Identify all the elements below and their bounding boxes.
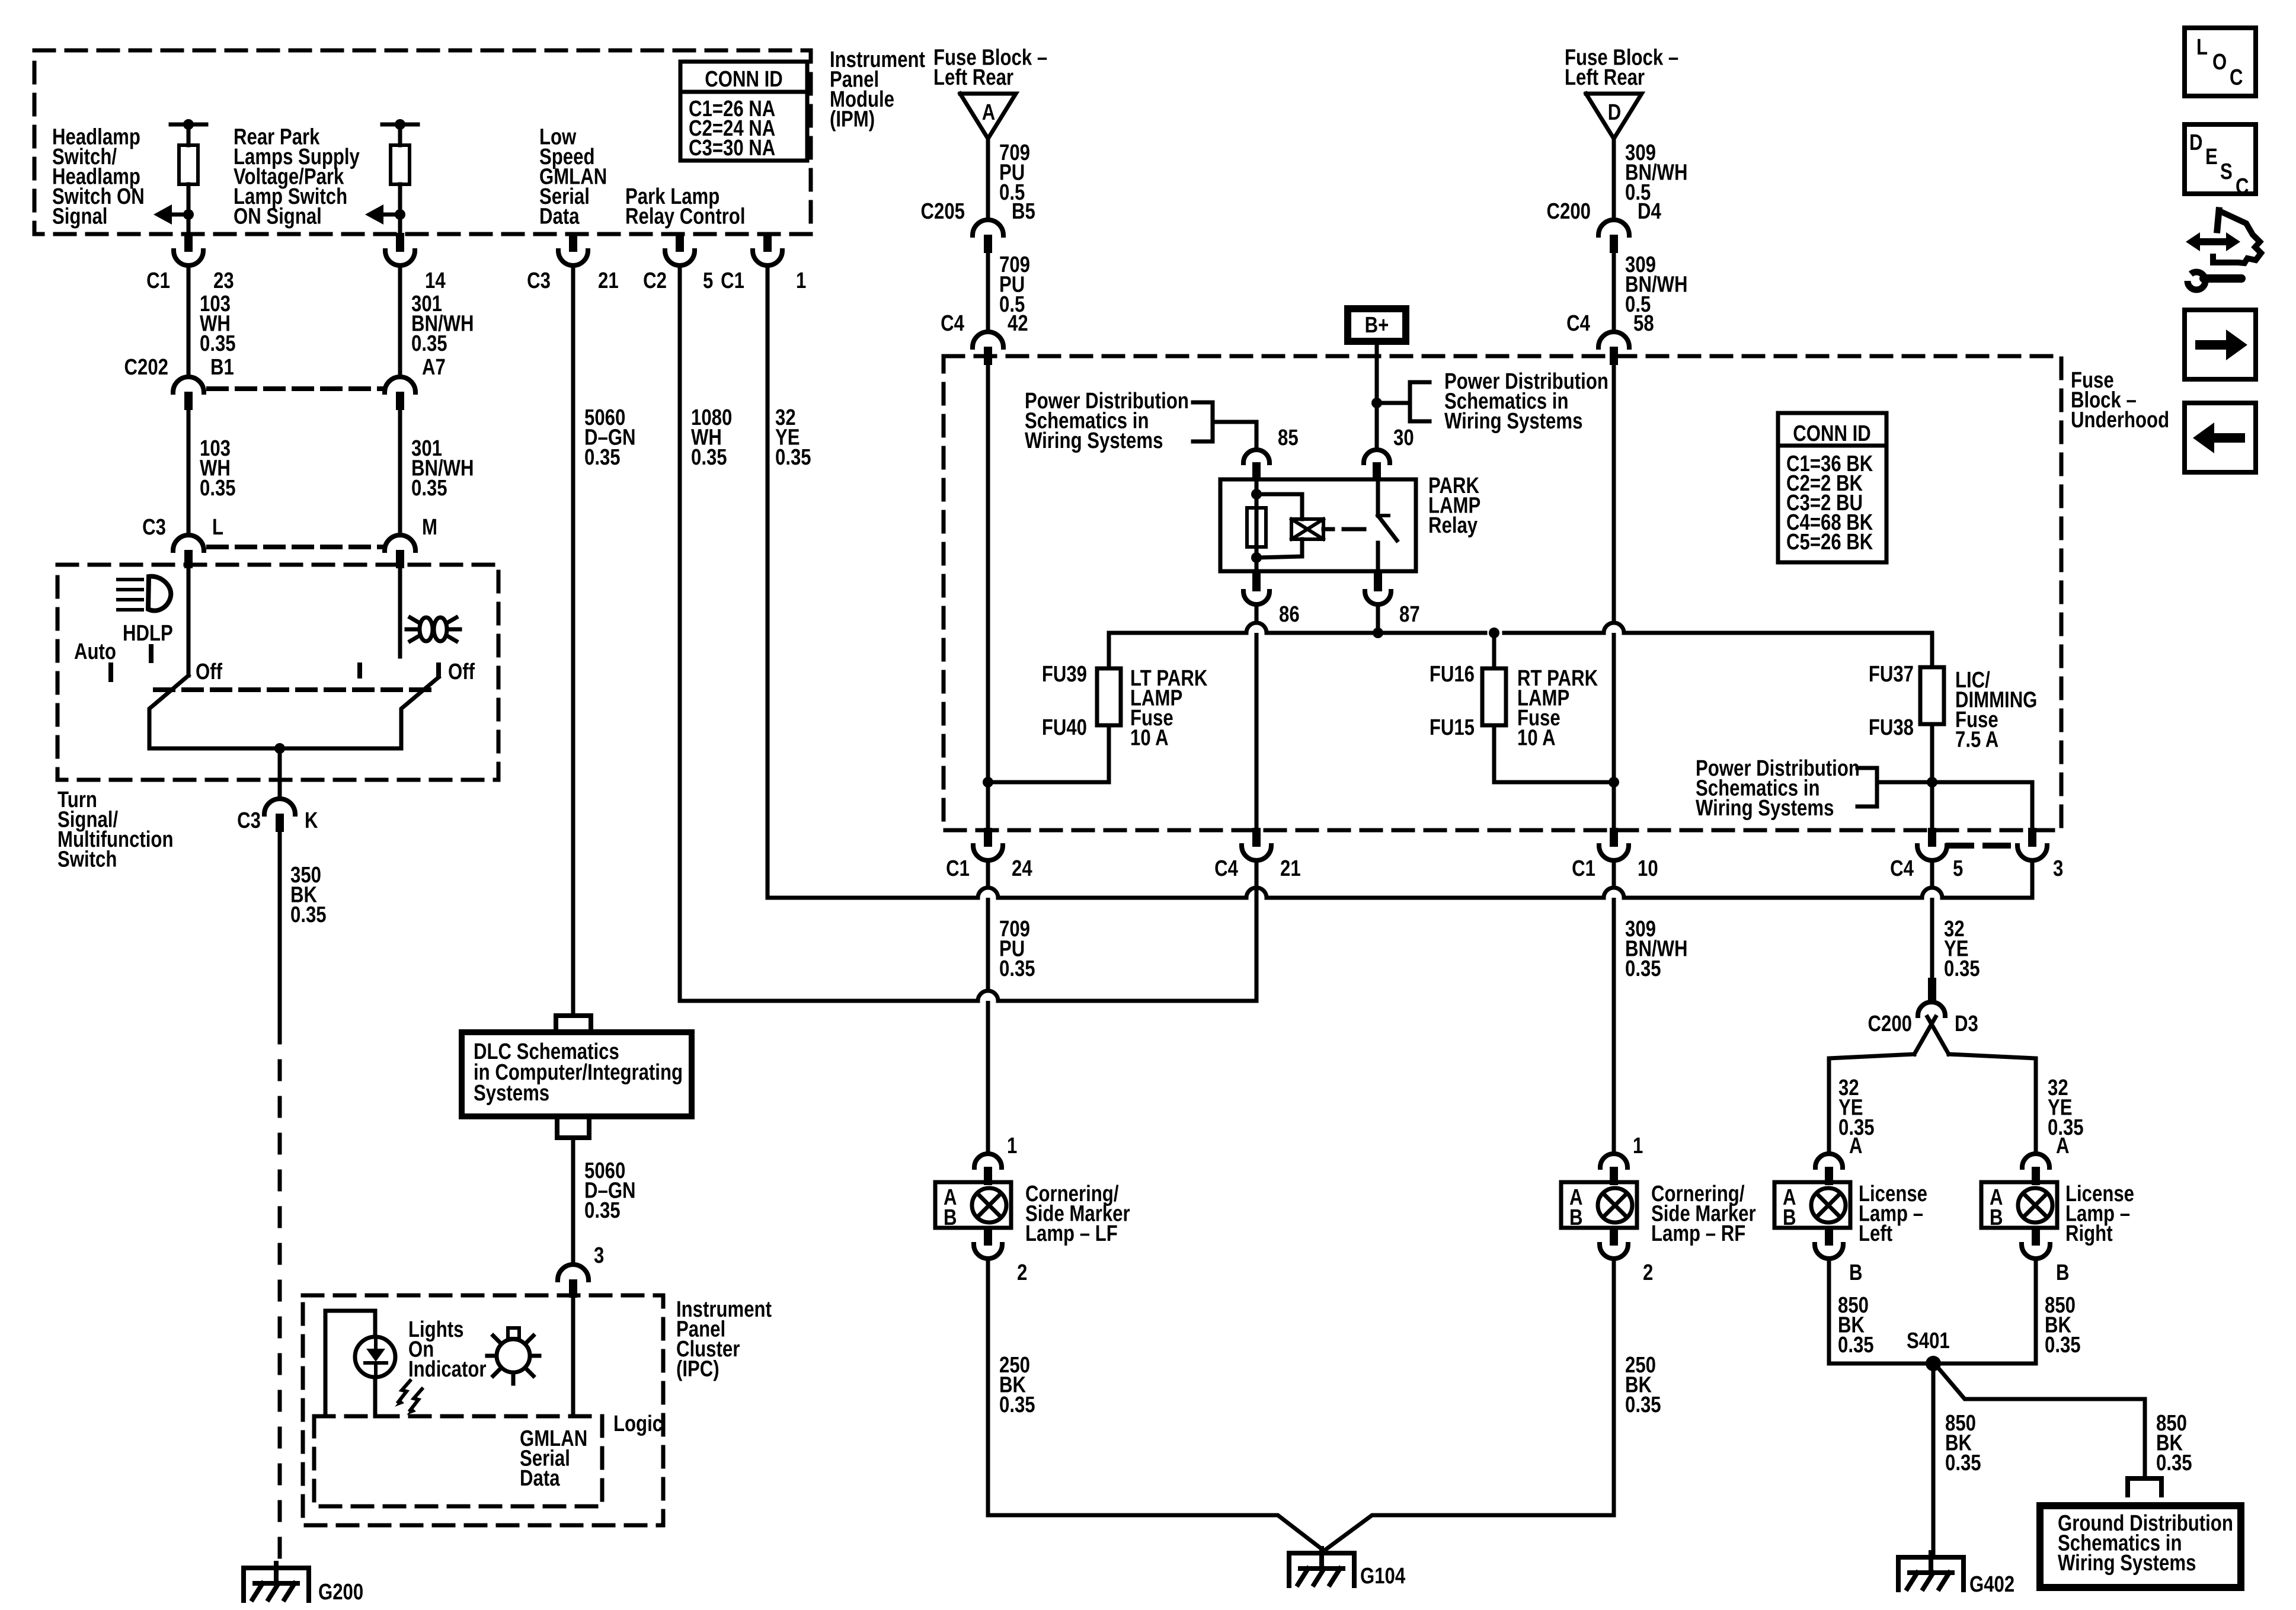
svg-text:Relay: Relay — [1428, 513, 1478, 538]
svg-text:85: 85 — [1278, 425, 1299, 450]
svg-text:Indicator: Indicator — [408, 1357, 487, 1382]
wire B+ to relay pin 30 — [1375, 341, 1379, 449]
svg-text:C3: C3 — [237, 808, 261, 833]
connector relay pin 85 — [1243, 450, 1269, 463]
wire into IPC — [571, 1298, 575, 1416]
node FU16 output junction — [1609, 777, 1619, 788]
svg-text:B1: B1 — [210, 355, 234, 380]
svg-text:C5=26 BK: C5=26 BK — [1786, 530, 1873, 555]
node FU37 output — [1927, 777, 1937, 788]
connector C1 pin 10 — [1610, 828, 1618, 847]
svg-text:2: 2 — [1017, 1260, 1027, 1285]
svg-text:0.35: 0.35 — [691, 445, 727, 470]
cornering side marker lamp RF — [1561, 1182, 1637, 1228]
wire 250 BK RF — [1612, 1259, 1616, 1515]
bracket power distribution right — [1408, 382, 1412, 421]
svg-text:0.35: 0.35 — [1838, 1333, 1874, 1358]
svg-text:A: A — [2056, 1134, 2070, 1158]
wire W2 into switch — [398, 568, 402, 657]
wire FU37 node to pin 3 — [1932, 782, 2032, 827]
icon indicator bulb — [497, 1339, 530, 1372]
Instrument Panel Cluster dashed box — [303, 1295, 663, 1525]
connector C1 pin 24 — [984, 828, 992, 847]
LED lights on indicator wiring — [325, 1311, 375, 1416]
svg-text:C4: C4 — [1566, 311, 1590, 336]
wire pin 87 to bus — [1376, 604, 1380, 633]
wire 709 PU 0.35 down — [986, 861, 990, 1151]
svg-text:0.35: 0.35 — [1945, 1451, 1981, 1475]
connector C1 pin 23 — [184, 233, 193, 252]
wire 5060 D-GN upper — [571, 266, 575, 1016]
icon park lamps — [420, 617, 433, 641]
power bus from relay 87 — [1109, 631, 1246, 635]
svg-text:21: 21 — [598, 268, 619, 293]
svg-text:D: D — [1608, 100, 1622, 125]
ground G104 — [1289, 1553, 1354, 1586]
wire W1 headlamp switch signal internal — [171, 123, 206, 127]
ground G200 — [244, 1568, 309, 1601]
connector RF lamp pin 2 — [1610, 1227, 1618, 1246]
node pin 87 bus junction — [1373, 628, 1383, 638]
arrow W2 signal out — [383, 213, 400, 217]
svg-text:D3: D3 — [1955, 1012, 1978, 1036]
node W2 arrow junction — [395, 209, 405, 220]
bracket power distribution lower — [1875, 768, 1879, 806]
wire 850 BK left — [1827, 1259, 1831, 1363]
IPM module dashed box — [34, 50, 811, 234]
svg-text:B5: B5 — [1012, 199, 1035, 224]
svg-text:FU37: FU37 — [1869, 662, 1914, 687]
connector link dashes C202 — [209, 386, 385, 391]
arrow W1 signal out — [172, 213, 188, 217]
svg-text:1: 1 — [1633, 1134, 1643, 1158]
Fuse Block Underhood dashed box — [944, 356, 2061, 830]
svg-text:C3=30 NA: C3=30 NA — [689, 136, 775, 161]
svg-text:HDLP: HDLP — [123, 621, 173, 646]
connector pin 3 — [2028, 828, 2036, 847]
Ground Distribution box — [2040, 1506, 2241, 1587]
svg-text:Relay Control: Relay Control — [625, 204, 745, 229]
connector relay pin 30 — [1364, 450, 1390, 463]
svg-text:0.35: 0.35 — [2156, 1451, 2192, 1475]
node FU39 output junction — [983, 777, 993, 788]
svg-text:0.35: 0.35 — [1944, 956, 1980, 981]
license lamp right — [1981, 1182, 2057, 1228]
node switch common — [274, 743, 285, 754]
wire 32 YE from IPM — [766, 266, 770, 896]
svg-text:10 A: 10 A — [1517, 726, 1556, 751]
IPC logic dashed box — [314, 1416, 602, 1506]
svg-text:Right: Right — [2065, 1221, 2113, 1246]
cornering side marker lamp LF — [935, 1182, 1011, 1228]
wire 250 BK LF — [986, 1259, 990, 1515]
icon headlamp HDLP — [118, 578, 142, 581]
svg-text:C202: C202 — [124, 355, 168, 380]
wire 350 BK dashed continuation — [278, 1025, 282, 1568]
svg-text:Signal: Signal — [52, 204, 107, 229]
wire 709 PU from fuse block — [986, 139, 990, 220]
wire 309 BN/WH mid — [1612, 253, 1616, 332]
svg-text:ON Signal: ON Signal — [234, 204, 322, 229]
wire FU16 to junction — [1494, 725, 1614, 782]
fuse FU37 LIC/DIMMING — [1930, 633, 1934, 667]
svg-text:C1: C1 — [721, 268, 744, 293]
relay coil branch — [1255, 479, 1259, 571]
icon box arrow right — [2185, 310, 2256, 379]
svg-text:G402: G402 — [1969, 1572, 2014, 1597]
svg-text:3: 3 — [594, 1243, 604, 1268]
svg-text:C200: C200 — [1547, 199, 1591, 224]
splice X below C200 — [1914, 1017, 1936, 1054]
svg-text:Switch: Switch — [57, 847, 117, 872]
wire 301 BN/WH segment 1 — [398, 266, 402, 377]
ground distribution bracket — [2128, 1478, 2161, 1495]
switch position tick Off right — [436, 665, 441, 676]
svg-text:(IPM): (IPM) — [830, 107, 875, 132]
connector license right pin A — [2022, 1154, 2049, 1167]
svg-text:Auto: Auto — [74, 639, 116, 664]
connector C4 pin 5 — [1928, 828, 1936, 847]
DLC Schematics box — [462, 1032, 692, 1116]
wire C4-21 down — [1255, 861, 1259, 1001]
wire 103 WH segment 2 — [187, 410, 191, 535]
svg-text:5: 5 — [703, 268, 713, 293]
svg-text:0.35: 0.35 — [999, 1393, 1035, 1417]
resistor relay coil — [1247, 508, 1266, 547]
svg-text:0.35: 0.35 — [584, 445, 621, 470]
wire B+ to bracket right — [1377, 401, 1410, 405]
svg-text:0.35: 0.35 — [290, 902, 327, 927]
wire LF to G104 — [988, 1515, 1324, 1551]
connector C4 pin 21 — [1252, 828, 1261, 847]
bus hop over C1-10 — [1604, 888, 1624, 898]
svg-text:FU39: FU39 — [1042, 662, 1087, 687]
svg-text:L: L — [212, 515, 223, 540]
svg-text:Data: Data — [520, 1466, 560, 1491]
resistor R1 headlamp switch pull-up — [179, 145, 198, 184]
svg-text:L: L — [2196, 35, 2208, 60]
svg-text:B: B — [944, 1205, 957, 1230]
svg-text:Data: Data — [539, 204, 580, 229]
DLC box lower bracket — [557, 1119, 589, 1138]
wire bracket to FU37 node — [1877, 780, 1932, 785]
svg-text:58: 58 — [1633, 311, 1654, 336]
node W1 arrow junction — [183, 209, 194, 220]
wire 103 WH segment 1 — [187, 266, 191, 377]
bus hop over C4-21 — [1246, 888, 1267, 898]
relay switch — [1376, 479, 1380, 516]
wire S401 to ground distribution — [1938, 1368, 2145, 1476]
wire 301 BN/WH segment 2 — [398, 410, 402, 535]
connector license left pin A — [1815, 1154, 1843, 1167]
fuse FU16 RT PARK LAMP — [1492, 633, 1496, 668]
svg-text:C3: C3 — [527, 268, 551, 293]
svg-text:C4: C4 — [1890, 856, 1914, 881]
svg-text:Left Rear: Left Rear — [1565, 65, 1645, 90]
svg-text:1: 1 — [1007, 1134, 1017, 1158]
icon box DESC — [2185, 124, 2256, 194]
icon box arrow left — [2185, 403, 2256, 472]
wire 709 PU into underhood — [986, 365, 990, 827]
relay PARK LAMP box — [1220, 479, 1416, 571]
svg-text:Wiring Systems: Wiring Systems — [2058, 1551, 2196, 1576]
wire to left license lamp — [1829, 1054, 1914, 1154]
svg-text:S401: S401 — [1907, 1329, 1950, 1353]
svg-text:B+: B+ — [1365, 313, 1389, 338]
svg-text:C1: C1 — [946, 856, 970, 881]
connector C200 pin D3 — [1928, 978, 1936, 1000]
bracket power distribution left — [1211, 402, 1215, 441]
svg-text:CONN ID: CONN ID — [705, 67, 783, 92]
svg-text:0.35: 0.35 — [411, 476, 447, 501]
connector C2 pin 5 park lamp relay control — [676, 233, 684, 252]
svg-text:7.5 A: 7.5 A — [1955, 728, 1998, 753]
resistor R2 rear park lamps pull-up — [391, 145, 410, 184]
svg-text:0.35: 0.35 — [775, 445, 811, 470]
svg-text:E: E — [2205, 145, 2218, 169]
connector relay pin 87 — [1374, 571, 1382, 591]
wire FU37 down — [1930, 724, 1934, 827]
wire 709 PU mid — [986, 253, 990, 332]
wire W1 below resistor — [187, 184, 191, 236]
svg-text:Lamp – LF: Lamp – LF — [1025, 1221, 1118, 1246]
svg-text:C1: C1 — [146, 268, 170, 293]
svg-text:(IPC): (IPC) — [676, 1357, 720, 1382]
svg-text:A: A — [1849, 1134, 1863, 1158]
svg-text:B: B — [1569, 1205, 1583, 1230]
switch position tick Auto — [108, 665, 113, 680]
svg-text:0.35: 0.35 — [584, 1198, 621, 1223]
svg-text:K: K — [305, 808, 318, 833]
wire 850 BK right — [2034, 1259, 2038, 1363]
wire 309 BN/WH into underhood — [1612, 365, 1616, 827]
CONN ID box underhood — [1778, 413, 1886, 562]
svg-text:B: B — [2056, 1260, 2070, 1285]
svg-text:FU38: FU38 — [1869, 715, 1914, 740]
icon box LOC — [2185, 28, 2256, 96]
svg-text:14: 14 — [425, 268, 446, 293]
svg-text:B: B — [1849, 1260, 1863, 1285]
svg-text:0.35: 0.35 — [200, 476, 236, 501]
relay control lower bus 1689 — [680, 999, 978, 1003]
svg-text:C2: C2 — [643, 268, 667, 293]
svg-text:2: 2 — [1643, 1260, 1653, 1285]
svg-text:Left: Left — [1859, 1221, 1892, 1246]
wire FU39 to junction — [988, 725, 1109, 782]
svg-text:C: C — [2230, 65, 2243, 90]
svg-text:87: 87 — [1399, 602, 1420, 627]
svg-text:30: 30 — [1393, 425, 1414, 450]
switch blade left — [149, 676, 188, 748]
svg-text:C1: C1 — [1572, 856, 1595, 881]
wire switch output to C3 K — [278, 748, 282, 799]
Fuse Block Left Rear A triangle — [960, 94, 1016, 139]
hop over C1-24 at 1689 — [978, 991, 998, 1001]
svg-text:A: A — [982, 100, 996, 125]
switch position tick right — [357, 665, 362, 676]
svg-text:0.35: 0.35 — [999, 956, 1035, 981]
Fuse Block Left Rear D triangle — [1586, 94, 1642, 139]
svg-text:C3: C3 — [142, 515, 166, 540]
svg-text:3: 3 — [2053, 856, 2063, 881]
bus hop over C4-5 — [1922, 888, 1942, 898]
svg-text:Wiring Systems: Wiring Systems — [1696, 796, 1834, 821]
node top W2 — [395, 119, 405, 130]
svg-text:FU40: FU40 — [1042, 715, 1087, 740]
wire S401 to G402 — [1932, 1363, 1936, 1555]
svg-text:Logic: Logic — [613, 1411, 663, 1436]
connector C3 pin 21 GMLAN — [569, 233, 577, 252]
svg-text:0.35: 0.35 — [1625, 956, 1661, 981]
wire pin 3 down to bus — [2030, 861, 2035, 898]
svg-text:0.35: 0.35 — [200, 331, 236, 356]
svg-text:D: D — [2189, 130, 2203, 155]
icon car wrench — [2186, 232, 2240, 251]
bus hop over 86 wire — [1246, 623, 1267, 633]
LED arrows — [398, 1381, 410, 1402]
svg-text:C4: C4 — [1214, 856, 1238, 881]
svg-text:FU15: FU15 — [1430, 715, 1475, 740]
svg-text:0.35: 0.35 — [1625, 1393, 1661, 1417]
Turn Signal / Multifunction Switch dashed box — [57, 565, 498, 780]
LED indicator — [355, 1337, 395, 1377]
svg-text:FU16: FU16 — [1430, 662, 1475, 687]
svg-text:Off: Off — [196, 660, 222, 684]
svg-text:G104: G104 — [1360, 1564, 1406, 1589]
svg-text:O: O — [2212, 50, 2227, 75]
svg-text:B: B — [1783, 1205, 1796, 1230]
svg-text:Underhood: Underhood — [2071, 408, 2169, 433]
wire W1 into switch — [187, 568, 191, 676]
relay linkage dashes — [1323, 527, 1333, 532]
svg-text:0.35: 0.35 — [411, 331, 447, 356]
svg-text:A7: A7 — [422, 355, 446, 380]
wire 309 BN/WH 0.35 down — [1612, 861, 1616, 1151]
svg-text:C200: C200 — [1868, 1012, 1912, 1036]
switch common bar — [149, 747, 401, 751]
CONN ID box IPM — [680, 62, 807, 161]
svg-text:CONN ID: CONN ID — [1793, 421, 1871, 446]
wire 1080 WH — [678, 266, 682, 1001]
svg-text:C: C — [2236, 174, 2249, 199]
svg-text:10 A: 10 A — [1130, 726, 1169, 751]
connector link dashes C3 L-M — [209, 545, 385, 549]
bus hop over C1-10 wire — [1604, 623, 1624, 633]
connector C1 pin 14 — [396, 233, 404, 252]
svg-text:24: 24 — [1012, 856, 1032, 881]
license lamp left — [1774, 1182, 1850, 1228]
bus hop over C1-24 — [978, 888, 998, 898]
wire to right license lamp — [1949, 1054, 2036, 1154]
ground G402 — [1898, 1557, 1964, 1590]
svg-text:10: 10 — [1638, 856, 1658, 881]
wire 32 YE down — [1930, 861, 1934, 978]
wire 5060 lower — [571, 1138, 575, 1265]
connector LF lamp pin 2 — [984, 1227, 992, 1246]
connector license right pin B — [2032, 1227, 2040, 1246]
wire GMLAN to DLC — [556, 1016, 591, 1032]
connector link dashes C4-5 to 3 — [1949, 843, 2016, 849]
switch linkage dashes — [155, 687, 433, 692]
connector license left pin B — [1825, 1227, 1833, 1246]
relay coil X box — [1291, 519, 1323, 539]
svg-text:Left Rear: Left Rear — [933, 65, 1013, 90]
wire 309 BN/WH from fuse block — [1612, 139, 1616, 220]
svg-text:23: 23 — [213, 268, 234, 293]
svg-text:D4: D4 — [1638, 199, 1661, 224]
svg-text:5: 5 — [1953, 856, 1963, 881]
fuse FU39 LT PARK LAMP — [1107, 633, 1111, 668]
svg-text:Systems: Systems — [474, 1081, 549, 1106]
wire W2 below resistor — [398, 184, 402, 236]
switch blade right — [401, 677, 439, 748]
connector IPC pin 3 — [558, 1265, 589, 1280]
svg-text:G200: G200 — [318, 1580, 363, 1605]
svg-text:Off: Off — [448, 660, 475, 684]
B+ battery feed box — [1348, 309, 1406, 341]
node FU16 feed — [1489, 628, 1499, 638]
svg-text:S: S — [2220, 159, 2233, 184]
svg-text:86: 86 — [1279, 602, 1300, 627]
wire 350 BK solid — [278, 832, 282, 1025]
svg-text:C205: C205 — [921, 199, 965, 224]
svg-text:Wiring Systems: Wiring Systems — [1444, 409, 1582, 434]
svg-text:1: 1 — [796, 268, 806, 293]
svg-text:Lamp – RF: Lamp – RF — [1651, 1221, 1745, 1246]
svg-text:Wiring Systems: Wiring Systems — [1025, 428, 1163, 453]
wire to relay pin 85 — [1213, 422, 1256, 449]
relay control bus 1515 — [768, 896, 978, 898]
wire RF to G104 — [1324, 1515, 1614, 1551]
svg-text:B: B — [1990, 1205, 2003, 1230]
svg-text:M: M — [422, 515, 437, 540]
svg-text:C4: C4 — [941, 311, 964, 336]
wire W2 rear park lamps internal — [382, 123, 418, 127]
svg-text:42: 42 — [1008, 311, 1028, 336]
switch position tick HDLP — [149, 646, 154, 661]
connector C1 pin 1 relay control 32 YE — [763, 233, 772, 252]
svg-text:0.35: 0.35 — [2045, 1333, 2081, 1358]
node B+ branch — [1371, 398, 1382, 408]
connector relay pin 86 — [1252, 571, 1261, 591]
node top W1 — [183, 119, 194, 130]
svg-text:21: 21 — [1280, 856, 1301, 881]
wire pin 86 down — [1255, 604, 1259, 827]
